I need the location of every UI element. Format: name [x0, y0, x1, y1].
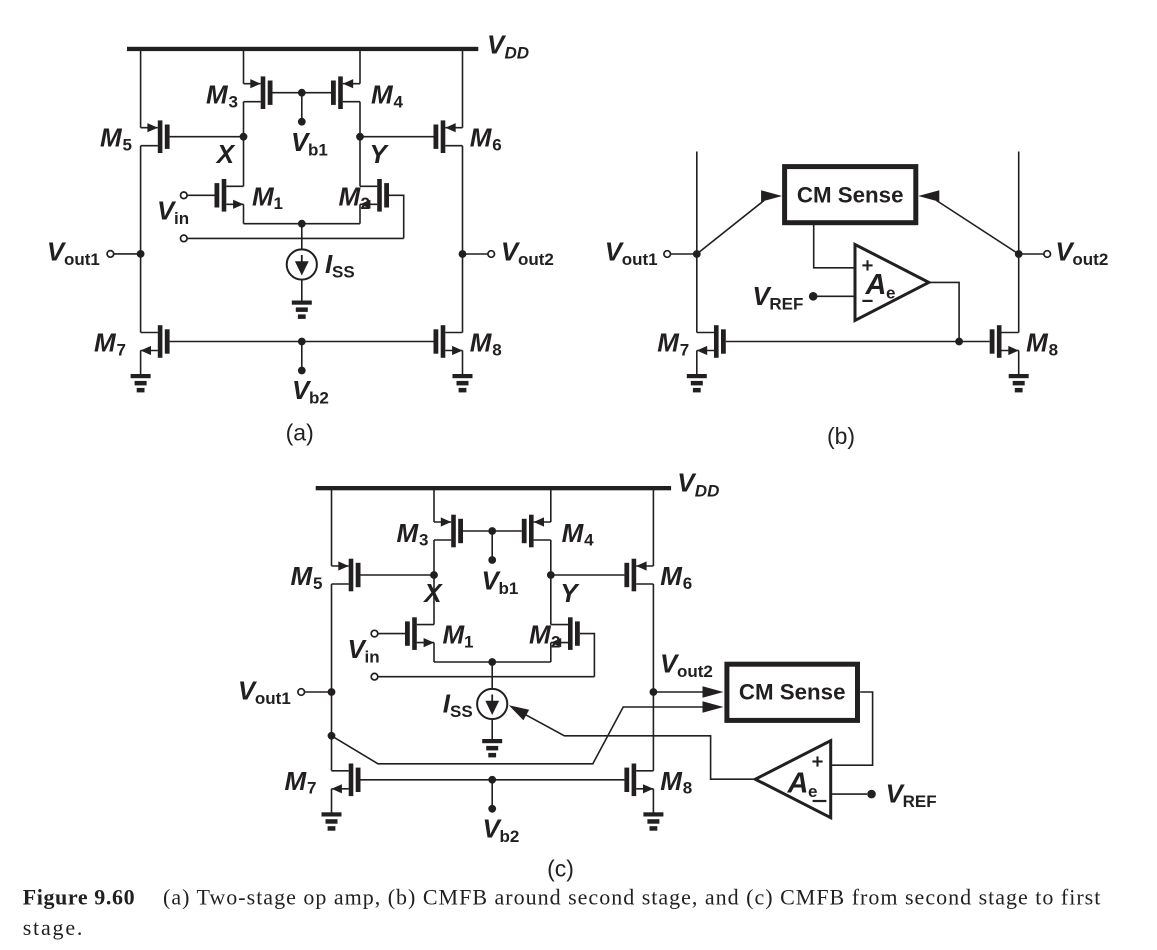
label M1 (c) — [443, 620, 474, 652]
transistor M7 (NMOS) (c) — [332, 764, 361, 797]
wire CM Sense to Ae + input (c) — [831, 692, 873, 765]
node Vb2 junction (c) — [488, 776, 496, 784]
svg-text:M: M — [100, 123, 123, 153]
ground of ISS (c) — [482, 739, 502, 757]
arrow into CM Sense right (b) — [918, 190, 939, 201]
wire M1 gate input (a) — [187, 194, 215, 196]
wire VDD to M5 source (c) — [331, 490, 333, 566]
transistor M6 (PMOS) (c) — [624, 559, 653, 592]
terminal Vb1 (a) — [298, 118, 306, 126]
node X junction (a) — [240, 133, 248, 141]
svg-text:SS: SS — [450, 702, 473, 721]
arrow to ISS (c) — [509, 705, 529, 720]
label VREF (c) — [886, 779, 937, 812]
node Vout2 junction (a) — [459, 250, 467, 258]
node Vout1 junction (c) — [328, 688, 336, 696]
svg-text:M: M — [285, 766, 308, 796]
label Vb2 (c) — [483, 813, 520, 846]
wire Vout2 to CM Sense (b) — [937, 201, 1019, 255]
caption (a) — [286, 420, 314, 446]
wire Vin- to M2 gate (c) — [378, 676, 595, 678]
node Vout1 junction (b) — [693, 250, 701, 258]
wire Vb2 stem (c) — [491, 780, 493, 809]
wire tail to ISS (c) — [491, 662, 493, 689]
terminal Vout2 (a) — [488, 251, 495, 258]
label Y (a) — [370, 139, 390, 169]
ground of M7 (b) — [687, 374, 707, 392]
svg-text:M: M — [562, 518, 585, 548]
svg-text:7: 7 — [307, 779, 316, 798]
arrow into CM Sense upper (c) — [703, 686, 724, 697]
caption (c) — [547, 856, 574, 882]
svg-text:2: 2 — [551, 632, 560, 651]
svg-text:in: in — [174, 209, 189, 228]
ground of M8 (c) — [643, 812, 663, 830]
node Y junction (c) — [547, 571, 555, 579]
svg-text:SS: SS — [332, 263, 355, 282]
caption (b) — [827, 423, 855, 449]
svg-text:M: M — [94, 328, 117, 358]
wire tail (c) — [434, 661, 551, 663]
wire Ae output to ISS control (c) — [526, 715, 755, 779]
svg-text:8: 8 — [492, 340, 501, 359]
svg-text:A: A — [787, 767, 809, 799]
wire Vb1 stem (a) — [301, 93, 303, 122]
wire ISS to ground (c) — [491, 719, 493, 739]
label Vout1 (b) — [605, 237, 658, 270]
svg-text:DD: DD — [695, 482, 720, 501]
transistor M4 (PMOS) (a) — [331, 76, 360, 109]
wire M5 drain to M7 drain (a) — [140, 146, 142, 333]
label M5 (c) — [291, 561, 323, 593]
wire CM Sense to Ae + input (b) — [814, 225, 855, 268]
svg-text:Figure 9.60(a) Two-stage op am: Figure 9.60(a) Two-stage op amp, (b) CMF… — [23, 885, 1102, 910]
terminal Vb1 (c) — [488, 556, 496, 564]
terminal Vb2 (a) — [298, 367, 306, 375]
arrow into CM Sense lower (c) — [703, 701, 724, 712]
wire M8 source to ground (c) — [652, 789, 654, 813]
label Vout1 (c) — [238, 676, 291, 709]
svg-text:M: M — [660, 561, 683, 591]
svg-text:CM Sense: CM Sense — [739, 679, 846, 704]
label Vout2 (c) — [660, 649, 713, 682]
node Y junction (a) — [356, 133, 364, 141]
label Vin (a) — [157, 196, 189, 229]
wire M2 source drop (a) — [359, 204, 361, 223]
wire Vout1 (a) — [114, 253, 141, 255]
label M7 (a) — [94, 328, 126, 360]
label M2 (a) — [339, 181, 370, 213]
svg-text:3: 3 — [229, 92, 238, 111]
terminal Vout2 (b) — [1044, 251, 1051, 258]
wire VDD to M3 source (a) — [243, 51, 245, 84]
svg-text:A: A — [865, 269, 887, 301]
label ISS (c) — [443, 688, 473, 721]
terminal Vin- (a) — [181, 235, 188, 242]
wire node X vertical (a) — [243, 102, 245, 187]
node tail junction (c) — [488, 658, 496, 666]
node Vout1 junction (a) — [137, 250, 145, 258]
wire M6 drain to M8 drain (a) — [462, 146, 464, 333]
figure caption line 1 — [23, 885, 1102, 910]
terminal Vb2 (c) — [488, 805, 496, 813]
svg-text:(c): (c) — [547, 856, 574, 882]
svg-text:(a): (a) — [286, 420, 314, 446]
terminal Vout1 (a) — [107, 251, 114, 258]
transistor M5 (PMOS) (a) — [141, 120, 170, 153]
wire VDD to M6 source (c) — [652, 490, 654, 566]
label Vin (c) — [348, 634, 380, 667]
svg-text:6: 6 — [683, 574, 692, 593]
svg-text:X: X — [215, 139, 236, 169]
svg-text:3: 3 — [419, 531, 428, 550]
label M6 (a) — [470, 123, 502, 155]
minus sign of Ae (b) — [862, 300, 872, 302]
svg-text:7: 7 — [117, 340, 126, 359]
label ISS (a) — [325, 249, 355, 282]
wire VDD to M3 source (c) — [433, 490, 435, 522]
svg-text:stage.: stage. — [23, 915, 85, 940]
wire Vb2 stem (a) — [301, 342, 303, 371]
node Vout2 junction (b) — [1015, 250, 1023, 258]
svg-text:4: 4 — [394, 92, 404, 111]
svg-text:M: M — [371, 80, 394, 110]
wire Vb1 stem (c) — [491, 531, 493, 560]
label M4 (c) — [562, 518, 595, 550]
label M7 (c) — [285, 766, 317, 798]
wire tail to ISS (a) — [301, 224, 303, 250]
transistor M2 (NMOS) (a) — [360, 179, 389, 212]
svg-text:b1: b1 — [308, 141, 328, 160]
svg-text:Y: Y — [560, 578, 580, 608]
svg-text:X: X — [422, 578, 443, 608]
wire M7 source to ground (b) — [696, 351, 698, 375]
wire M8 source to ground (a) — [462, 351, 464, 375]
svg-text:out2: out2 — [677, 662, 713, 681]
wire M5 gate to node X (c) — [361, 574, 435, 576]
ground of M7 (c) — [322, 812, 342, 830]
svg-text:M: M — [470, 328, 493, 358]
svg-text:b2: b2 — [309, 389, 329, 408]
wire M5 drain to M7 drain (c) — [331, 584, 333, 771]
transistor M1 (NMOS) (c) — [405, 617, 434, 650]
power rail VDD (c) — [316, 486, 671, 490]
wire Ae - input to VREF (c) — [831, 793, 867, 795]
block CM Sense (c) — [727, 664, 858, 720]
node X junction (c) — [430, 571, 438, 579]
wire node X vertical (c) — [433, 540, 435, 625]
label M8 (c) — [660, 766, 692, 798]
plus sign of Ae (b) — [862, 260, 872, 270]
label M4 (a) — [371, 80, 404, 112]
svg-text:Y: Y — [370, 139, 390, 169]
ground of M7 (a) — [131, 374, 151, 392]
label Vout2 (b) — [1055, 237, 1108, 270]
svg-text:in: in — [365, 647, 380, 666]
svg-text:e: e — [886, 284, 895, 303]
node Vout2 junction (c) — [650, 688, 658, 696]
wire M1 gate input (c) — [378, 633, 405, 635]
transistor M8 (NMOS) (a) — [434, 325, 463, 358]
wire M7-M8 gate line (c) — [361, 779, 625, 781]
terminal Vout1 (b) — [664, 251, 671, 258]
svg-text:4: 4 — [584, 531, 594, 550]
label Vb1 (a) — [291, 127, 328, 160]
transistor M3 (PMOS) (c) — [434, 515, 463, 548]
svg-text:out2: out2 — [1072, 250, 1108, 269]
wire M6 gate to node Y (a) — [360, 136, 434, 138]
transistor M8 (NMOS) (b) — [990, 325, 1019, 358]
wire Vout1 (c) — [305, 691, 332, 693]
wire VDD to M6 source (a) — [462, 51, 464, 128]
transistor M1 (NMOS) (a) — [215, 179, 244, 212]
power rail VDD (a) — [127, 47, 478, 51]
label M3 (c) — [397, 518, 429, 550]
ground of M8 (a) — [453, 374, 473, 392]
wire node Y vertical (c) — [550, 540, 552, 625]
wire Vout2 (b) — [1019, 253, 1044, 255]
label Vb1 (c) — [482, 565, 519, 598]
svg-text:CM Sense: CM Sense — [797, 183, 904, 208]
svg-text:out1: out1 — [622, 250, 658, 269]
svg-text:out1: out1 — [255, 689, 291, 708]
label VDD (c) — [677, 468, 719, 501]
wire M5 gate to node X (a) — [170, 136, 244, 138]
current source ISS (c) — [477, 689, 507, 719]
wire M2 gate loop (a) — [389, 195, 404, 238]
transistor M7 (NMOS) (b) — [697, 325, 726, 358]
minus sign of Ae (c) — [813, 800, 827, 802]
svg-text:REF: REF — [769, 295, 803, 314]
transistor M3 (PMOS) (a) — [244, 76, 273, 109]
label M6 (c) — [660, 561, 692, 593]
wire M7 source to ground (a) — [140, 351, 142, 375]
wire Vout1 (b) — [671, 253, 697, 255]
wire Vout2 to CM Sense (c) — [653, 691, 712, 693]
svg-text:e: e — [808, 782, 817, 801]
wire M7 source to ground (c) — [331, 789, 333, 813]
label Ae (b) — [865, 269, 896, 303]
terminal Vout1 (c) — [298, 689, 305, 696]
figure caption line 2 — [23, 915, 85, 940]
node tail junction (a) — [298, 220, 306, 228]
wire M3 gate to node Vb1 (c) — [463, 530, 492, 532]
svg-text:out1: out1 — [64, 250, 100, 269]
label M5 (a) — [100, 123, 132, 155]
wire VREF to Ae - input (b) — [813, 295, 855, 297]
label M8 (a) — [470, 328, 502, 360]
label X (a) — [215, 139, 236, 169]
wire M4 gate to node Vb1 (a) — [302, 92, 332, 94]
svg-text:M: M — [443, 620, 466, 650]
wire Vin- to M2 gate (a) — [187, 237, 404, 239]
wire M1 source drop (c) — [433, 643, 435, 662]
transistor M7 (NMOS) (a) — [141, 325, 170, 358]
label VDD (a) — [487, 29, 529, 62]
wire M4 gate to node Vb1 (c) — [492, 530, 522, 532]
svg-text:7: 7 — [680, 340, 689, 359]
node Vb1 junction (a) — [298, 89, 306, 97]
svg-text:1: 1 — [274, 194, 283, 213]
svg-text:1: 1 — [464, 632, 473, 651]
svg-text:M: M — [660, 766, 683, 796]
terminal Vin+ (c) — [371, 630, 378, 637]
svg-text:M: M — [1026, 328, 1049, 358]
plus sign of Ae (c) — [812, 756, 822, 766]
wire Vout2 (a) — [463, 253, 488, 255]
label M2 (c) — [529, 620, 560, 652]
wire M3 gate to node Vb1 (a) — [273, 92, 302, 94]
svg-text:M: M — [206, 80, 229, 110]
wire second-stage right output stub (b) — [1018, 152, 1020, 333]
wire second-stage left output stub (b) — [696, 152, 698, 333]
arrow into CM Sense left (b) — [761, 190, 782, 201]
svg-text:8: 8 — [1049, 340, 1058, 359]
wire M2 source drop (c) — [550, 643, 552, 662]
op-amp Ae (c) — [755, 741, 830, 818]
label Y (c) — [560, 578, 580, 608]
label VREF (b) — [752, 281, 803, 314]
transistor M6 (PMOS) (a) — [434, 120, 463, 153]
transistor M4 (PMOS) (c) — [522, 515, 551, 548]
wire M6 drain to M8 drain (c) — [652, 584, 654, 771]
wire M7-M8 gate line (b) — [726, 341, 990, 343]
wire tail (a) — [244, 223, 361, 225]
svg-text:out2: out2 — [518, 250, 554, 269]
terminal Vin+ (a) — [181, 192, 188, 199]
label M8 (b) — [1026, 328, 1058, 360]
node CMFB tap junction (c) — [328, 732, 336, 740]
node feedback junction (b) — [955, 338, 963, 346]
wire M2 gate loop (c) — [580, 634, 595, 677]
svg-text:b2: b2 — [500, 827, 520, 846]
svg-text:M: M — [397, 518, 420, 548]
label M3 (a) — [206, 80, 238, 112]
svg-text:6: 6 — [492, 136, 501, 155]
svg-text:M: M — [529, 620, 552, 650]
svg-text:(b): (b) — [827, 423, 855, 449]
svg-text:b1: b1 — [499, 579, 519, 598]
label Ae (c) — [787, 767, 818, 801]
label X (c) — [422, 578, 443, 608]
wire Vout1 tap to CM Sense (c) — [332, 707, 713, 764]
terminal Vin- (c) — [371, 673, 378, 680]
transistor M5 (PMOS) (c) — [332, 559, 361, 592]
svg-text:5: 5 — [313, 574, 322, 593]
node Vb1 junction (c) — [488, 527, 496, 535]
wire VDD to M4 source (c) — [550, 490, 552, 522]
wire node Y vertical (a) — [359, 102, 361, 187]
wire VDD to M5 source (a) — [140, 51, 142, 128]
block CM Sense (b) — [785, 167, 916, 223]
wire M7-M8 gate line (a) — [170, 341, 434, 343]
transistor M8 (NMOS) (c) — [624, 764, 653, 797]
terminal VREF (b) — [809, 292, 818, 301]
label M1 (a) — [252, 181, 283, 213]
wire Ae output feedback (b) — [929, 282, 959, 341]
svg-text:M: M — [252, 181, 275, 211]
label Vout1 (a) — [47, 237, 100, 270]
label M7 (b) — [657, 328, 689, 360]
wire M8 source to ground (b) — [1018, 351, 1020, 375]
wire M6 gate to node Y (c) — [551, 574, 625, 576]
svg-text:2: 2 — [361, 194, 370, 213]
svg-text:DD: DD — [505, 44, 530, 63]
wire VDD to M4 source (a) — [359, 51, 361, 84]
node Vb2 junction (a) — [298, 338, 306, 346]
svg-text:M: M — [339, 181, 362, 211]
wire ISS to ground (a) — [301, 280, 303, 301]
wire Vout1 to CM Sense (b) — [697, 201, 764, 255]
ground of M8 (b) — [1009, 374, 1029, 392]
wire M1 source drop (a) — [243, 204, 245, 223]
transistor M2 (NMOS) (c) — [551, 617, 580, 650]
svg-text:5: 5 — [123, 136, 132, 155]
op-amp Ae (b) — [855, 245, 929, 321]
svg-text:REF: REF — [903, 792, 937, 811]
label Vout2 (a) — [501, 237, 554, 270]
svg-text:M: M — [291, 561, 314, 591]
terminal VREF (c) — [867, 790, 876, 799]
ground of ISS (a) — [292, 301, 312, 319]
svg-text:8: 8 — [683, 779, 692, 798]
svg-text:M: M — [657, 328, 680, 358]
current source ISS (a) — [287, 249, 317, 279]
svg-text:M: M — [470, 123, 493, 153]
label Vb2 (a) — [292, 375, 329, 408]
